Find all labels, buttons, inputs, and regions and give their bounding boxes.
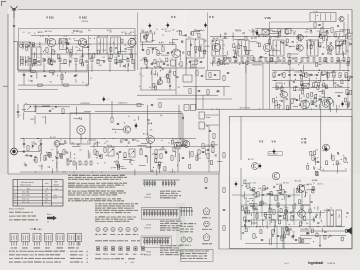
wire am v1 <box>51 47 53 62</box>
svg-text:V 102: V 102 <box>79 16 87 20</box>
wire lm2 <box>17 104 19 118</box>
capacitor Cz3 <box>261 239 263 240</box>
capacitor Cy1 <box>23 143 25 144</box>
svg-text:100: 100 <box>345 104 348 106</box>
svg-text:4,7: 4,7 <box>300 35 302 37</box>
resistor Raf3 <box>94 150 96 155</box>
wire mid drop203 <box>202 95 204 109</box>
box afc <box>183 75 192 82</box>
svg-text:205: 205 <box>45 195 48 197</box>
svg-text:30p: 30p <box>153 74 156 76</box>
resistor R301 <box>224 56 226 61</box>
inductor IF6 box <box>307 40 318 56</box>
elcap Co5 <box>288 195 291 196</box>
resistor Ro12 <box>273 210 275 215</box>
label conn2 <box>144 252 151 257</box>
wire agcv1 <box>23 72 25 85</box>
wire cluster out right detail <box>307 149 348 175</box>
capacitor Caf1 <box>56 157 58 158</box>
inductor IF7 box <box>336 40 346 54</box>
box tone pot <box>129 149 135 157</box>
wire AM divider <box>88 36 90 85</box>
resistor Rm <box>62 109 64 114</box>
symbol transistor bottoms <box>95 227 138 235</box>
label specks FM tops <box>141 28 198 35</box>
label AC151 <box>143 133 149 136</box>
transistor V401 <box>281 91 288 98</box>
svg-text:0,1: 0,1 <box>175 77 177 79</box>
svg-text:AC 151: AC 151 <box>143 133 149 136</box>
wire tc2 <box>205 124 220 126</box>
svg-text:68: 68 <box>22 59 24 61</box>
svg-text:V 76: V 76 <box>301 141 307 145</box>
label specks AF tops <box>31 139 181 145</box>
wire rd2 <box>343 22 345 37</box>
svg-text:220: 220 <box>125 139 128 141</box>
resistor R112 <box>61 75 63 80</box>
resistor Ro8 <box>257 192 259 197</box>
wire out rail195 <box>232 194 300 196</box>
wire frame right <box>351 10 353 250</box>
svg-text:AC 117: AC 117 <box>251 30 257 33</box>
wire z1 <box>276 227 278 249</box>
svg-text:AF 125: AF 125 <box>312 179 318 182</box>
svg-text:58: 58 <box>45 202 47 204</box>
transistor V302 <box>263 43 271 51</box>
capacitor antenna <box>13 25 15 26</box>
capacitor C206 <box>200 61 202 62</box>
svg-text:2,2: 2,2 <box>159 58 161 60</box>
wire fm drop3 <box>169 68 171 90</box>
resistor Ry3 <box>44 156 46 161</box>
wire out h4 <box>300 230 346 232</box>
resistor R401 <box>291 99 293 104</box>
svg-text:(7 638 59): (7 638 59) <box>144 227 151 229</box>
wire mid rail95 <box>137 94 218 96</box>
connector B6/8 upper <box>143 180 180 187</box>
svg-text:5k: 5k <box>320 167 322 169</box>
wire frame bottom left <box>8 173 219 175</box>
diode Do1 <box>337 152 339 154</box>
motor M1 <box>77 126 85 134</box>
resistor Rx4 <box>189 89 191 94</box>
label bottom notes <box>9 250 88 264</box>
svg-text:2,2: 2,2 <box>348 94 350 96</box>
resistor Raf8 <box>160 154 162 159</box>
svg-text:AD 149: AD 149 <box>295 180 301 183</box>
label V4 <box>148 122 153 126</box>
node MP2 <box>166 22 169 28</box>
label AC117 <box>248 158 254 161</box>
svg-text:AF 106: AF 106 <box>45 30 52 33</box>
svg-text:6,8: 6,8 <box>305 229 307 231</box>
svg-text:30p: 30p <box>88 30 91 32</box>
svg-text:5k: 5k <box>32 72 34 74</box>
svg-text:AF 125: AF 125 <box>213 37 219 40</box>
wire out h3 <box>241 226 345 228</box>
svg-text:L: L <box>14 192 15 194</box>
resistor Rx5 <box>207 90 209 95</box>
transistor V202 <box>172 49 181 58</box>
wire det v3 <box>329 106 331 109</box>
resistor Ro5 <box>332 156 334 161</box>
svg-text:1n: 1n <box>288 72 290 74</box>
svg-text:AF 106: AF 106 <box>307 183 313 186</box>
capacitor Caf4 <box>145 155 147 156</box>
svg-text:10,7: 10,7 <box>54 198 57 200</box>
capacitor C305 <box>326 30 328 31</box>
wire lm1 <box>36 106 70 108</box>
svg-text:4,7: 4,7 <box>284 28 286 30</box>
svg-text:30p: 30p <box>262 57 265 59</box>
connector B1/8 lower <box>141 236 172 248</box>
svg-text:220: 220 <box>273 76 276 78</box>
transistor V103 <box>128 39 136 47</box>
resistor Raf4 <box>104 148 106 153</box>
resistor R402 <box>314 98 316 103</box>
svg-text:4x: 4x <box>25 103 27 105</box>
wire fm v4 <box>195 65 197 69</box>
transistor V305 <box>327 45 333 51</box>
transistor V403 <box>326 98 332 104</box>
resistor Raf1 <box>49 153 51 158</box>
resistor R305 <box>321 28 323 33</box>
svg-text:2,2: 2,2 <box>323 61 325 63</box>
wire cluster FM below <box>139 68 180 90</box>
capacitor Caf3 <box>119 151 121 152</box>
svg-text:30p: 30p <box>160 115 163 117</box>
svg-text:0,3: 0,3 <box>330 208 332 210</box>
wire cluster IF topright extra <box>282 31 352 66</box>
resistor Rstep1 <box>205 178 207 183</box>
wire jack <box>18 151 41 153</box>
capacitor C301 <box>233 56 235 57</box>
resistor Raf7 <box>155 150 157 155</box>
resistor Rd2 <box>212 142 214 147</box>
resistor Ro6 <box>344 158 346 163</box>
diode Dm <box>55 106 57 108</box>
svg-text:30p: 30p <box>306 223 309 225</box>
node MP1 <box>148 23 151 29</box>
svg-text:0,1: 0,1 <box>310 33 312 35</box>
capacitor Cz1 <box>277 235 279 236</box>
resistor R110 <box>31 70 36 72</box>
wire tc1 <box>205 114 220 116</box>
label ground notes <box>9 207 38 220</box>
label bus12 <box>108 99 128 105</box>
wire det v1 <box>283 98 285 109</box>
inductor FM input box <box>141 33 153 42</box>
label V3 <box>209 15 214 19</box>
label V75 <box>301 137 307 141</box>
label TM30 <box>81 21 88 23</box>
svg-text:2,2: 2,2 <box>319 96 321 98</box>
wire cluster AM detail <box>22 38 136 71</box>
resistor Ro13 <box>285 210 287 215</box>
box supply <box>24 105 36 112</box>
svg-text:AC 117: AC 117 <box>248 158 254 161</box>
inductor IF3 box <box>212 40 223 56</box>
resistor R302 <box>251 56 253 61</box>
wire mid rail99 <box>157 98 232 100</box>
wire AGC1 <box>18 71 89 73</box>
svg-text:68: 68 <box>125 45 127 47</box>
wire cluster AF detail <box>25 139 223 175</box>
svg-text:0,1: 0,1 <box>302 192 304 194</box>
box out trafo <box>327 210 334 226</box>
label outv <box>270 208 332 231</box>
resistor Ro4 <box>312 156 314 161</box>
label AF105b <box>125 33 131 36</box>
wire out bottom verts <box>257 205 284 249</box>
label notes block1 <box>68 175 127 202</box>
wire out h1 <box>321 170 347 172</box>
wire rd1 <box>322 22 324 29</box>
capacitor C201 <box>142 49 144 50</box>
resistor Ro11 <box>282 190 284 195</box>
wire out v3 <box>319 236 321 245</box>
box A1 tape <box>70 113 90 144</box>
wire antenna feed <box>13 18 17 148</box>
resistor Rx2 <box>209 73 211 78</box>
capacitor Cy2 <box>40 143 42 144</box>
svg-text:V 101: V 101 <box>46 16 54 20</box>
resistor R303 <box>278 29 280 34</box>
resistor Rd3 <box>198 150 200 155</box>
plug jack <box>11 148 18 155</box>
svg-text:1n: 1n <box>313 183 315 185</box>
capacitor Caf2 <box>99 155 101 156</box>
svg-text:68: 68 <box>104 50 106 52</box>
capacitor Cx1 <box>201 75 203 76</box>
svg-text:4,7: 4,7 <box>117 153 119 155</box>
label V2 <box>171 15 176 19</box>
transistor V54 <box>181 140 187 146</box>
svg-text:0,1: 0,1 <box>236 61 238 63</box>
capacitor C110 <box>23 74 25 75</box>
label specks AM tops <box>23 29 136 35</box>
resistor R207 <box>157 62 159 67</box>
svg-text:5k: 5k <box>78 44 80 46</box>
svg-text:220: 220 <box>249 183 252 185</box>
svg-text:0,25: 0,25 <box>253 183 256 185</box>
resistor group af misc <box>67 161 118 165</box>
node junction dots <box>23 35 350 227</box>
inductor L101 box <box>18 42 32 70</box>
capacitor C105 <box>87 46 89 47</box>
resistor R102 <box>52 50 54 55</box>
node MP11 <box>324 146 327 152</box>
transistor V102 <box>78 38 86 46</box>
resistor Raf5 <box>124 153 126 158</box>
svg-text:1n: 1n <box>282 63 284 65</box>
label Lrail <box>186 107 188 109</box>
resistor Ro14 <box>291 216 293 221</box>
wire cluster midleft detail <box>18 103 91 124</box>
label AF106 <box>45 30 52 33</box>
capacitor Co3 <box>252 189 254 190</box>
label agc <box>28 80 30 82</box>
box det2 <box>302 84 309 89</box>
resistor Raf10 <box>191 152 193 157</box>
resistor Ro1 <box>223 153 225 158</box>
svg-text:100: 100 <box>316 149 319 151</box>
wire fm drop2 <box>151 68 153 90</box>
wire if drop 3 <box>262 63 264 109</box>
svg-text:30p: 30p <box>26 155 29 157</box>
svg-text:AT 125: AT 125 <box>326 71 331 74</box>
svg-text:10k: 10k <box>119 59 122 61</box>
wire y1 <box>23 139 25 149</box>
wire tc3 <box>208 125 210 172</box>
resistor Rb1 <box>159 103 161 108</box>
wire am v2 <box>82 47 84 62</box>
label vol <box>107 145 112 147</box>
svg-text:47: 47 <box>88 50 90 52</box>
resistor group AM bias row <box>21 58 134 72</box>
svg-text:100: 100 <box>338 49 341 51</box>
label din <box>180 223 196 232</box>
svg-text:AC 151: AC 151 <box>162 28 168 31</box>
capacitor Crail <box>182 117 183 119</box>
resistor Rx3 <box>223 76 225 81</box>
capacitor C112 <box>74 75 76 76</box>
label fmif <box>188 37 192 39</box>
symbol pent1 <box>202 208 211 219</box>
svg-text:4,7k: 4,7k <box>31 141 34 143</box>
wire lm3 <box>80 135 82 144</box>
svg-text:4,7k: 4,7k <box>304 74 307 76</box>
box tape conn2 <box>199 122 205 129</box>
svg-text:5k: 5k <box>270 204 272 206</box>
svg-text:2,2: 2,2 <box>314 74 316 76</box>
wire cluster det detail <box>272 69 353 112</box>
capacitor C104 <box>67 43 69 44</box>
svg-text:68: 68 <box>45 159 47 161</box>
wire cluster FM detail <box>140 30 210 69</box>
node MP9 <box>258 163 261 169</box>
capacitor trim L101 <box>28 45 29 47</box>
wire if drop 2 <box>245 63 247 109</box>
svg-text:1k: 1k <box>60 140 62 142</box>
svg-text:AF 106: AF 106 <box>236 30 242 33</box>
table frequency ranges <box>13 180 63 207</box>
resistor R202 <box>157 51 159 56</box>
resistor R104 <box>89 54 91 59</box>
resistor Raf0 <box>39 146 41 151</box>
svg-text:AC 117: AC 117 <box>130 31 136 34</box>
svg-text:5k: 5k <box>301 222 303 224</box>
wire AF mid rail <box>90 146 215 148</box>
svg-text:68: 68 <box>74 158 76 160</box>
label det <box>295 89 301 92</box>
wire frame bottom right <box>219 248 352 250</box>
wire IF rail <box>210 36 350 38</box>
capacitor C207 <box>151 63 153 64</box>
wire y2 <box>40 139 42 152</box>
wire frame step <box>218 174 220 249</box>
wire out rail b <box>245 219 310 221</box>
svg-text:1n: 1n <box>280 31 282 33</box>
svg-text:AC 151: AC 151 <box>50 136 56 139</box>
svg-text:pF: pF <box>46 188 48 190</box>
wire fm drop4 <box>175 58 177 95</box>
resistor Ro7 <box>247 184 249 189</box>
label V76 <box>301 141 307 145</box>
capacitor Co2 <box>317 161 319 162</box>
svg-text:1n: 1n <box>339 226 341 228</box>
svg-text:Masse: Masse <box>47 214 52 216</box>
wire railcorner3 <box>182 114 184 142</box>
wire fm bottom <box>140 67 205 69</box>
resistor R307 <box>314 23 316 28</box>
capacitor C302 <box>260 56 262 57</box>
svg-text:V 4: V 4 <box>148 122 153 126</box>
svg-text:2,2: 2,2 <box>102 50 104 52</box>
svg-text:2,2: 2,2 <box>292 69 294 71</box>
label afrow <box>95 144 162 151</box>
svg-text:460 kHz: 460 kHz <box>54 184 60 186</box>
svg-text:5,6k: 5,6k <box>136 140 139 142</box>
svg-text:1n: 1n <box>337 61 339 63</box>
wire z3 <box>245 243 310 245</box>
transistor V5a <box>54 141 60 147</box>
svg-text:100: 100 <box>140 60 143 62</box>
transistor V75 out <box>297 185 305 193</box>
svg-text:10k: 10k <box>290 30 293 32</box>
svg-text:220: 220 <box>280 216 283 218</box>
wire cluster det extra <box>276 72 337 113</box>
svg-text:5k: 5k <box>313 104 315 106</box>
wire x2 <box>195 87 197 110</box>
resistor Rz2 <box>287 230 289 235</box>
wire det v2 <box>305 99 307 110</box>
svg-text:5k: 5k <box>324 225 326 227</box>
svg-text:AC 117: AC 117 <box>107 29 113 32</box>
capacitor C4a <box>117 123 119 124</box>
resistor Raf6 <box>140 150 142 155</box>
box relay2 <box>191 105 196 111</box>
svg-text:4,7k: 4,7k <box>293 31 296 33</box>
label FM box <box>142 32 149 34</box>
inductor FM IF box <box>186 39 204 58</box>
svg-text:= Rad: = Rad <box>130 262 134 264</box>
symbol case outlines <box>96 247 146 255</box>
svg-text:30p: 30p <box>242 33 245 35</box>
arrow supply <box>27 106 31 110</box>
resistor R206 <box>180 62 182 67</box>
box fm trim <box>171 60 176 66</box>
svg-text:517 - 1622: 517 - 1622 <box>22 195 30 197</box>
capacitor Co9 <box>248 220 250 221</box>
svg-text:L~: L~ <box>186 107 188 109</box>
symbol circ2 <box>202 221 212 230</box>
label af2 <box>172 138 178 141</box>
resistor Raf9 <box>171 156 173 161</box>
wire out h5 <box>300 235 346 237</box>
svg-text:✳: ✳ <box>86 254 88 257</box>
svg-text:(TM 30): (TM 30) <box>81 21 88 23</box>
svg-text:47: 47 <box>111 168 113 170</box>
svg-text:68: 68 <box>134 120 136 122</box>
wire out v2 <box>240 168 242 240</box>
box volume pot <box>108 147 114 156</box>
svg-text:10k: 10k <box>172 30 175 32</box>
resistor Ry2 <box>35 158 37 163</box>
svg-text:220: 220 <box>236 52 239 54</box>
box xcross <box>262 30 269 36</box>
wire det rail <box>272 70 350 72</box>
